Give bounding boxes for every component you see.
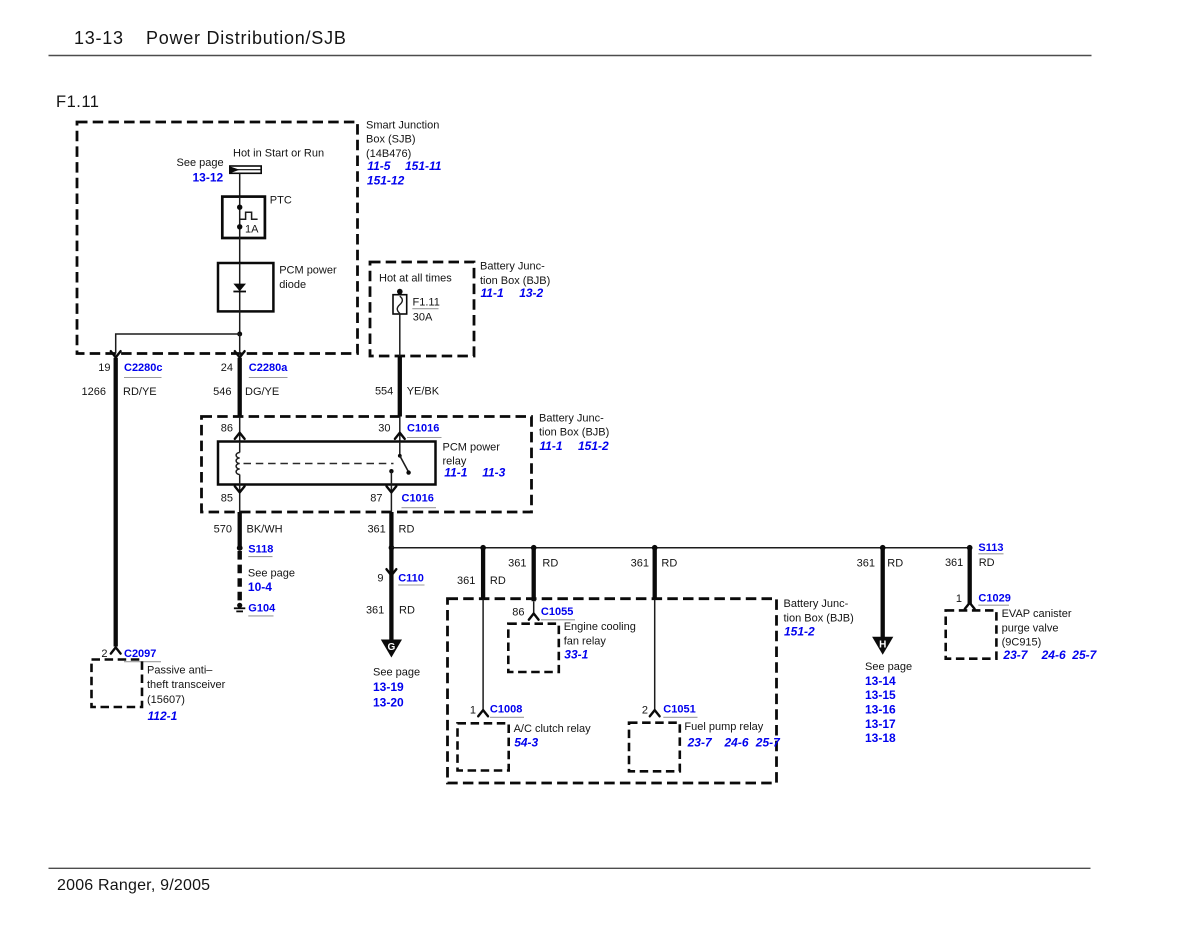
svg-text:C1016: C1016 bbox=[407, 423, 439, 435]
pin 86 bbox=[235, 433, 245, 439]
box Battery Junction Box (BJB fuse) bbox=[370, 262, 474, 356]
svg-text:13-18: 13-18 bbox=[865, 731, 896, 745]
node junction (H branch) bbox=[880, 545, 886, 551]
wire node to pin 24 bbox=[239, 334, 241, 354]
connector C2097 pin 2 bbox=[111, 647, 121, 653]
svg-text:purge valve: purge valve bbox=[1002, 622, 1059, 634]
svg-text:13-13: 13-13 bbox=[74, 28, 124, 48]
wire 1266 RD/YE bbox=[114, 358, 118, 647]
svg-text:F1.11: F1.11 bbox=[413, 296, 440, 308]
relay PCM power relay bbox=[218, 442, 436, 485]
splice S118 bbox=[237, 545, 243, 551]
box Battery Junction Box (PCM power relay) bbox=[202, 417, 532, 513]
svg-text:YE/BK: YE/BK bbox=[407, 385, 440, 397]
svg-text:S113: S113 bbox=[978, 542, 1003, 554]
svg-text:2006 Ranger, 9/2005: 2006 Ranger, 9/2005 bbox=[57, 877, 210, 894]
wire 546 DG/YE bbox=[238, 358, 242, 417]
relay coil bbox=[239, 442, 241, 453]
svg-text:theft transceiver: theft transceiver bbox=[147, 679, 226, 691]
relay switch blade bbox=[400, 456, 409, 472]
fuel pump relay bbox=[629, 723, 680, 772]
svg-text:85: 85 bbox=[221, 493, 233, 505]
node junction (C1008 branch) bbox=[480, 545, 486, 551]
node bus junction (main) bbox=[389, 545, 395, 551]
svg-text:33-1: 33-1 bbox=[564, 647, 588, 661]
svg-text:Hot at all times: Hot at all times bbox=[379, 272, 452, 284]
wire to connector C110 bbox=[389, 548, 393, 640]
svg-text:13-19: 13-19 bbox=[373, 680, 404, 694]
bus wire 361 RD bbox=[391, 547, 969, 549]
svg-text:RD: RD bbox=[661, 557, 677, 569]
svg-text:13-20: 13-20 bbox=[373, 695, 404, 709]
svg-text:PCM power: PCM power bbox=[279, 265, 337, 277]
wire 361 RD (from pin 87) bbox=[389, 512, 393, 548]
svg-text:RD: RD bbox=[399, 524, 415, 536]
svg-text:13-16: 13-16 bbox=[865, 703, 896, 717]
svg-text:25-7: 25-7 bbox=[755, 735, 781, 749]
svg-text:361: 361 bbox=[508, 557, 526, 569]
relay switch contact 87 bbox=[389, 469, 393, 473]
svg-text:151-2: 151-2 bbox=[578, 439, 609, 453]
wire 361 RD branch C1051 bbox=[653, 548, 657, 600]
passive anti-theft transceiver bbox=[92, 660, 143, 708]
svg-text:1A: 1A bbox=[245, 224, 259, 236]
wire 570 BK/WH bbox=[238, 512, 242, 548]
svg-text:See page: See page bbox=[177, 157, 224, 169]
svg-text:554: 554 bbox=[375, 385, 393, 397]
node junction (C1051 branch) bbox=[652, 545, 658, 551]
relay link (dashed) bbox=[244, 463, 394, 465]
svg-text:Battery Junc-: Battery Junc- bbox=[784, 598, 849, 610]
wire pin86 entry bbox=[239, 417, 241, 442]
svg-text:24: 24 bbox=[221, 362, 233, 374]
wire fuse to box edge bbox=[399, 314, 401, 356]
svg-text:112-1: 112-1 bbox=[148, 709, 178, 723]
wire node to pin 19 bbox=[116, 334, 240, 354]
svg-text:86: 86 bbox=[221, 423, 233, 435]
svg-text:C2280c: C2280c bbox=[124, 362, 163, 374]
svg-text:Passive anti–: Passive anti– bbox=[147, 665, 213, 677]
wire 361 RD branch H bbox=[881, 548, 885, 637]
connector C1008 pin 1 bbox=[478, 710, 488, 716]
svg-text:86: 86 bbox=[512, 607, 524, 619]
relay switch contact 30 bbox=[399, 442, 401, 456]
diode PCM power diode bbox=[218, 263, 273, 311]
svg-text:RD/YE: RD/YE bbox=[123, 386, 157, 398]
svg-text:570: 570 bbox=[214, 524, 232, 536]
svg-text:24-6: 24-6 bbox=[724, 735, 749, 749]
svg-text:13-14: 13-14 bbox=[865, 674, 896, 688]
svg-text:C2280a: C2280a bbox=[249, 362, 288, 374]
wire PTC to diode bbox=[239, 238, 241, 263]
svg-text:C110: C110 bbox=[398, 572, 424, 584]
svg-text:25-7: 25-7 bbox=[1071, 648, 1097, 662]
svg-text:Smart Junction: Smart Junction bbox=[366, 119, 439, 131]
svg-text:361: 361 bbox=[945, 557, 963, 569]
off-page arrow G bbox=[381, 640, 402, 658]
splice S113 bbox=[967, 545, 973, 551]
svg-text:361: 361 bbox=[631, 557, 649, 569]
off-page arrow H bbox=[872, 637, 893, 655]
svg-text:BK/WH: BK/WH bbox=[247, 524, 283, 536]
svg-text:Power Distribution/SJB: Power Distribution/SJB bbox=[146, 28, 347, 48]
svg-text:RD: RD bbox=[399, 605, 415, 617]
svg-text:PCM power: PCM power bbox=[443, 441, 501, 453]
connector C1029 pin 1 bbox=[965, 603, 975, 609]
svg-text:54-3: 54-3 bbox=[514, 735, 538, 749]
svg-text:C2097: C2097 bbox=[124, 648, 156, 660]
connector C110 pin 9 bbox=[387, 569, 397, 575]
svg-text:C1029: C1029 bbox=[978, 593, 1010, 605]
node junction (C1055 branch) bbox=[531, 545, 537, 551]
box Battery Junction Box (relays) bbox=[448, 599, 777, 783]
engine cooling fan relay bbox=[508, 624, 559, 672]
svg-text:1: 1 bbox=[956, 593, 962, 605]
svg-text:13-15: 13-15 bbox=[865, 688, 896, 702]
PTC thermal fuse 1A bbox=[222, 197, 265, 238]
fuse bus bar (SJB feed) bbox=[230, 166, 261, 173]
svg-text:1266: 1266 bbox=[82, 386, 106, 398]
svg-text:2: 2 bbox=[642, 704, 648, 716]
svg-text:87: 87 bbox=[370, 493, 382, 505]
svg-text:tion Box (BJB): tion Box (BJB) bbox=[480, 275, 550, 287]
svg-text:RD: RD bbox=[542, 557, 558, 569]
svg-text:151-11: 151-11 bbox=[405, 159, 442, 173]
svg-text:11-5: 11-5 bbox=[367, 159, 390, 173]
svg-text:DG/YE: DG/YE bbox=[245, 386, 279, 398]
pin 87 bbox=[387, 486, 397, 492]
svg-text:11-1: 11-1 bbox=[481, 286, 504, 300]
svg-text:11-1: 11-1 bbox=[444, 466, 467, 480]
svg-text:361: 361 bbox=[457, 575, 475, 587]
svg-text:11-1: 11-1 bbox=[539, 439, 562, 453]
svg-text:151-2: 151-2 bbox=[784, 624, 815, 638]
svg-text:See page: See page bbox=[373, 667, 420, 679]
svg-text:13-17: 13-17 bbox=[865, 717, 896, 731]
svg-text:tion Box (BJB): tion Box (BJB) bbox=[784, 613, 854, 625]
svg-text:C1055: C1055 bbox=[541, 606, 573, 618]
wire 361 RD branch C1055 bbox=[532, 548, 536, 602]
svg-text:361: 361 bbox=[367, 524, 385, 536]
node junction (SJB internal) bbox=[237, 332, 242, 337]
svg-text:H: H bbox=[879, 639, 886, 650]
svg-text:13-12: 13-12 bbox=[193, 170, 224, 184]
wire 361 RD branch C1008 bbox=[481, 548, 485, 600]
svg-text:F1.11: F1.11 bbox=[56, 93, 99, 111]
wire diode to node bbox=[239, 311, 241, 334]
svg-text:Battery Junc-: Battery Junc- bbox=[480, 261, 545, 273]
svg-text:RD: RD bbox=[887, 557, 903, 569]
EVAP canister purge valve bbox=[946, 610, 997, 658]
svg-text:361: 361 bbox=[366, 605, 384, 617]
svg-text:G: G bbox=[388, 642, 396, 653]
svg-text:Fuel pump relay: Fuel pump relay bbox=[684, 721, 763, 733]
svg-text:23-7: 23-7 bbox=[1002, 648, 1028, 662]
footer rule bbox=[49, 867, 1091, 869]
svg-text:Box (SJB): Box (SJB) bbox=[366, 134, 416, 146]
wire pin85 exit bbox=[239, 485, 241, 513]
fuse F1.11 30A bbox=[397, 289, 403, 295]
wire 554 YE/BK bbox=[398, 356, 402, 417]
svg-text:C1051: C1051 bbox=[663, 704, 695, 716]
svg-text:G104: G104 bbox=[248, 603, 276, 615]
svg-text:11-3: 11-3 bbox=[482, 466, 505, 480]
svg-text:See page: See page bbox=[248, 568, 295, 580]
svg-text:Hot in Start or Run: Hot in Start or Run bbox=[233, 148, 324, 160]
svg-text:(15607): (15607) bbox=[147, 694, 185, 706]
svg-text:fan relay: fan relay bbox=[564, 635, 607, 647]
svg-text:A/C clutch relay: A/C clutch relay bbox=[514, 723, 592, 735]
svg-text:361: 361 bbox=[857, 557, 875, 569]
pin 19 bbox=[111, 351, 121, 357]
svg-text:9: 9 bbox=[377, 572, 383, 584]
svg-text:EVAP canister: EVAP canister bbox=[1002, 608, 1072, 620]
svg-text:C1008: C1008 bbox=[490, 704, 522, 716]
svg-text:PTC: PTC bbox=[270, 195, 292, 207]
connector C1055 pin 86 bbox=[529, 614, 539, 620]
svg-text:23-7: 23-7 bbox=[687, 735, 713, 749]
svg-text:diode: diode bbox=[279, 279, 306, 291]
svg-text:151-12: 151-12 bbox=[367, 173, 405, 187]
svg-text:Engine cooling: Engine cooling bbox=[564, 621, 636, 633]
box Smart Junction Box (SJB) bbox=[77, 122, 358, 354]
ground G104 bbox=[237, 603, 242, 608]
svg-text:546: 546 bbox=[213, 386, 231, 398]
svg-text:Battery Junc-: Battery Junc- bbox=[539, 413, 604, 425]
svg-text:2: 2 bbox=[101, 648, 107, 660]
pin 85 bbox=[235, 486, 245, 492]
svg-text:1: 1 bbox=[470, 704, 476, 716]
svg-text:13-2: 13-2 bbox=[519, 286, 543, 300]
header rule bbox=[49, 55, 1092, 57]
svg-text:30A: 30A bbox=[413, 312, 433, 324]
pin 24 bbox=[235, 351, 245, 357]
svg-text:S118: S118 bbox=[248, 543, 273, 555]
wire S118 to ground (dashed) bbox=[237, 551, 241, 602]
svg-text:C1016: C1016 bbox=[402, 493, 434, 505]
svg-text:RD: RD bbox=[490, 575, 506, 587]
svg-text:See page: See page bbox=[865, 661, 912, 673]
svg-text:tion Box (BJB): tion Box (BJB) bbox=[539, 427, 609, 439]
wire 361 RD branch C1029 bbox=[968, 548, 972, 604]
svg-text:30: 30 bbox=[378, 423, 390, 435]
svg-text:RD: RD bbox=[979, 557, 995, 569]
connector C1051 pin 2 bbox=[650, 710, 660, 716]
svg-text:19: 19 bbox=[98, 362, 110, 374]
wire pin30 entry bbox=[399, 417, 401, 442]
A/C clutch relay bbox=[458, 723, 509, 770]
svg-text:(9C915): (9C915) bbox=[1002, 637, 1042, 649]
svg-text:10-4: 10-4 bbox=[248, 580, 272, 594]
wire fuse to PTC bbox=[239, 174, 241, 197]
pin 30 bbox=[395, 433, 405, 439]
svg-text:24-6: 24-6 bbox=[1041, 648, 1066, 662]
